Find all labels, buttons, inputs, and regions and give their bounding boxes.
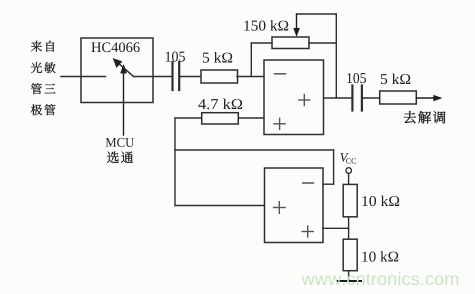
U3 inverting input marker (-)	[303, 182, 314, 184]
wire: C2 to R2	[363, 97, 380, 99]
label Vcc	[340, 153, 349, 162]
wire: U3 output to node B	[175, 205, 265, 207]
U2 non-inverting input marker (+)	[274, 118, 285, 129]
wire: R1 to U2 inverting input, node A	[237, 76, 264, 78]
wire: U3 feedback vertical	[333, 150, 335, 184]
wire: input to HC4066 switch	[61, 76, 106, 78]
wire: U3 non-inverting input to divider node C	[323, 227, 349, 229]
wire: bias vertical (node B)	[174, 118, 176, 206]
U3 output polarity marker (+)	[274, 202, 286, 214]
Vcc terminal	[346, 168, 352, 174]
watermark www.cntronics.com	[301, 272, 458, 285]
label MCU	[106, 138, 134, 147]
resistor R6 10 kOhm	[343, 239, 357, 271]
wire: feedback vertical down to U2 output	[335, 14, 337, 98]
switch blade (arrow) inside U1	[113, 59, 133, 77]
wire: node A up to R3 feedback	[250, 43, 252, 77]
label 10 kΩ (R5 value)	[362, 196, 399, 207]
output arrow to demodulator	[416, 95, 441, 101]
label 4.7 kΩ (R4 value)	[198, 99, 242, 110]
wire: R3 right terminal to feedback vertical	[309, 42, 336, 44]
wire: U3 inverting input stub	[323, 183, 334, 185]
wire: R6 to ground	[348, 271, 350, 281]
wire: R4 to U2 non-inverting input	[238, 117, 264, 119]
resistor R1 5 kOhm	[201, 70, 238, 83]
U3 non-inverting input marker (+)	[302, 226, 313, 237]
wire: to R3 left terminal	[251, 42, 272, 44]
wire: U2 output to C2	[324, 97, 352, 99]
capacitor C2 (105)	[352, 86, 362, 111]
label 选通 (gating)	[107, 152, 133, 164]
resistor R3 150 kOhm (feedback)	[272, 37, 309, 49]
U2 output polarity marker (+)	[299, 95, 310, 106]
wire: C1 to R1	[180, 76, 200, 78]
resistor R4 4.7 kOhm	[202, 113, 239, 124]
capacitor C1 (105)	[173, 62, 180, 90]
wire: bias net to R4	[175, 117, 202, 119]
label 5 kΩ (R1 value)	[203, 52, 232, 63]
wire: Vcc to R5	[348, 173, 350, 184]
wire: feedback top horizontal	[297, 13, 337, 15]
label 去解调 (to demodulator)	[404, 111, 446, 123]
U2 inverting input marker (-)	[275, 73, 286, 75]
label 150 kΩ (R3 value)	[244, 20, 288, 31]
MCU control arrow into U1	[121, 65, 127, 135]
wire: U3 feedback top horizontal	[175, 149, 334, 151]
label 105 (C2 value)	[347, 73, 366, 83]
ground	[337, 280, 361, 282]
wire: R5 to R6, node C	[348, 217, 350, 239]
resistor R2 5 kOhm	[380, 91, 417, 104]
op-amp U3 body	[265, 168, 324, 243]
wire: switch to C1	[134, 76, 172, 78]
label HC4066	[91, 42, 139, 52]
resistor R5 10 kOhm	[343, 184, 357, 216]
wiper arrow onto R3	[294, 14, 300, 36]
label 105 (C1 value)	[166, 52, 185, 62]
label: input net 来自光敏管三极管 (from photosensor transistor)	[31, 41, 56, 115]
op-amp U2 body	[264, 60, 324, 135]
label 10 kΩ (R6 value)	[362, 251, 398, 262]
analog switch U1 HC4066 body	[81, 38, 153, 103]
label 5 kΩ (R2 value)	[381, 74, 410, 85]
